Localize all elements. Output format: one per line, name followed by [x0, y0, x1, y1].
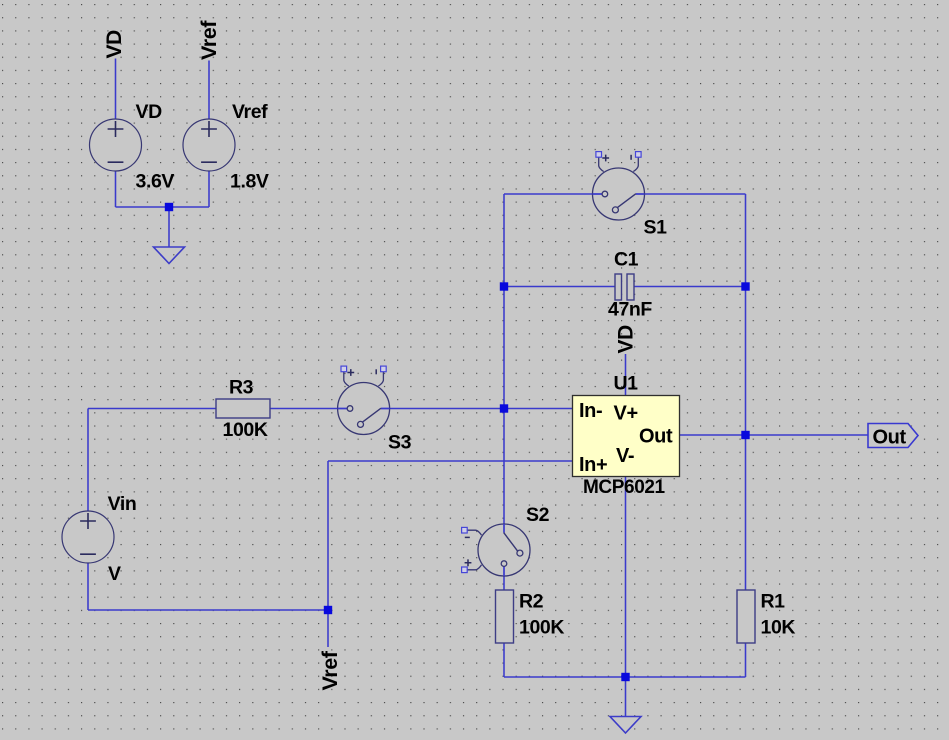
svg-text:3.6V: 3.6V [136, 171, 175, 193]
svg-text:U1: U1 [614, 373, 639, 395]
svg-text:Vref: Vref [318, 650, 342, 690]
svg-text:Out: Out [873, 427, 907, 449]
svg-text:R1: R1 [761, 591, 786, 613]
svg-text:S2: S2 [526, 504, 550, 526]
svg-text:V-: V- [616, 445, 634, 467]
svg-text:R3: R3 [229, 377, 254, 399]
svg-text:R2: R2 [519, 591, 544, 613]
svg-text:Vref: Vref [232, 101, 268, 123]
svg-text:In+: In+ [579, 454, 607, 476]
svg-text:VD: VD [615, 325, 638, 354]
svg-text:MCP6021: MCP6021 [583, 477, 666, 498]
svg-text:V+: V+ [614, 403, 638, 425]
svg-text:S3: S3 [388, 432, 412, 454]
svg-text:C1: C1 [614, 249, 639, 271]
svg-text:V: V [108, 563, 121, 585]
svg-text:1.8V: 1.8V [230, 171, 269, 193]
svg-text:Out: Out [639, 426, 673, 448]
svg-text:In-: In- [579, 400, 602, 422]
svg-text:100K: 100K [223, 419, 268, 441]
svg-text:100K: 100K [519, 617, 564, 639]
svg-text:Vref: Vref [197, 20, 221, 60]
svg-text:VD: VD [103, 30, 126, 59]
svg-text:Vin: Vin [108, 493, 137, 515]
svg-text:10K: 10K [761, 617, 796, 639]
svg-text:VD: VD [136, 101, 163, 123]
svg-text:47nF: 47nF [608, 299, 652, 321]
svg-text:S1: S1 [644, 217, 668, 239]
